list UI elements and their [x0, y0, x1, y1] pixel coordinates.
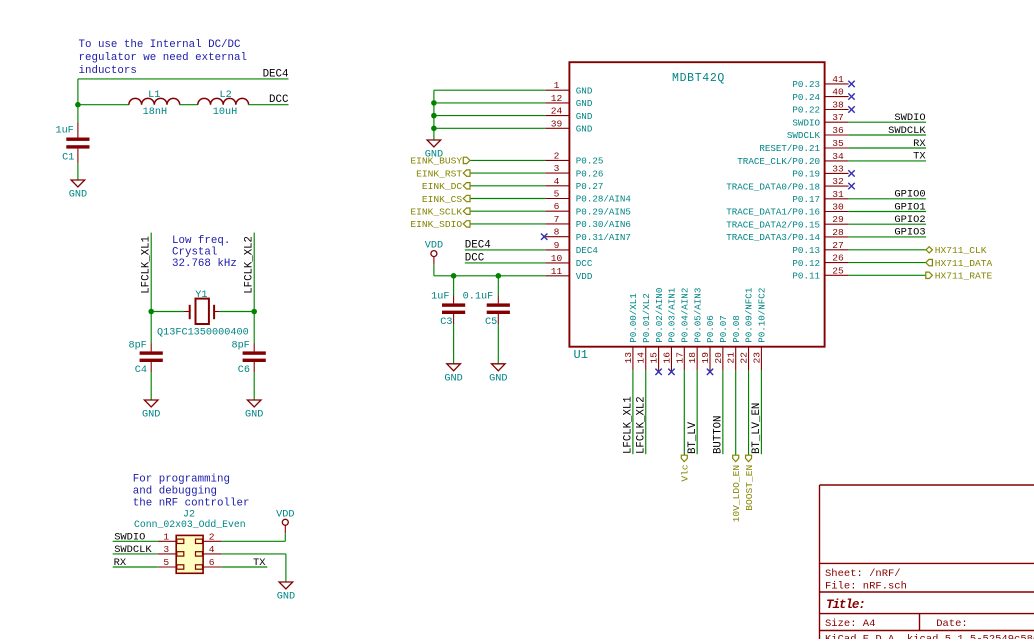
svg-text:1: 1 — [163, 531, 169, 542]
wire EINK_CS to U1 — [470, 198, 545, 200]
svg-text:Size: A4: Size: A4 — [825, 618, 875, 630]
svg-text:DEC4: DEC4 — [263, 68, 289, 80]
pin 11 (VDD) of U1 — [545, 266, 592, 282]
svg-text:GND: GND — [576, 98, 593, 109]
svg-text:GPIO1: GPIO1 — [894, 201, 925, 213]
svg-text:32.768 kHz: 32.768 kHz — [172, 258, 237, 270]
svg-text:29: 29 — [832, 214, 844, 225]
no-connect pin 19 — [707, 369, 713, 375]
pin 3 (P0.26) of U1 — [545, 163, 603, 179]
no-connect pin 40 — [848, 93, 854, 99]
hierarchical label EINK_RST — [416, 168, 470, 179]
no-connect pin 8 — [541, 234, 547, 240]
pin 27 (P0.13) of U1 — [792, 240, 848, 256]
svg-text:Date:: Date: — [936, 618, 968, 630]
svg-text:SWDIO: SWDIO — [114, 531, 145, 543]
comment note: programming text — [133, 473, 250, 509]
pin 2 (P0.25) of U1 — [545, 150, 603, 166]
svg-text:L1: L1 — [148, 90, 160, 101]
svg-text:8pF: 8pF — [128, 340, 146, 351]
svg-text:P0.22: P0.22 — [792, 105, 820, 116]
pin 33 (P0.19) of U1 — [792, 163, 848, 179]
svg-text:13: 13 — [623, 352, 634, 364]
capacitor C5 — [463, 292, 510, 328]
wire between L1 and L2 — [180, 104, 198, 106]
pin 17 (P0.04/AIN2) of U1 — [674, 288, 690, 371]
capacitor C1 — [55, 123, 89, 164]
power VDD J2 — [276, 509, 294, 533]
wire pin2 to VDD corner — [221, 540, 285, 542]
svg-text:P0.12: P0.12 — [792, 258, 820, 269]
svg-text:18: 18 — [687, 352, 698, 364]
pin 4 of J2 — [203, 544, 221, 555]
svg-text:EINK_DC: EINK_DC — [422, 181, 463, 192]
wire GND pin row y=102.9 — [434, 102, 546, 104]
pin 10 (DCC) of U1 — [545, 253, 592, 269]
svg-text:P0.26: P0.26 — [576, 168, 604, 179]
pin 40 (P0.24) of U1 — [792, 87, 848, 103]
pin 29 (TRACE_DATA2/P0.15) of U1 — [726, 214, 848, 230]
wire pin 20 to label BUTTON — [722, 371, 724, 455]
svg-text:18nH: 18nH — [143, 107, 167, 118]
capacitor C4 — [128, 340, 162, 376]
svg-text:For programming: For programming — [133, 473, 230, 485]
wire C1 to ground — [77, 163, 79, 180]
ground GND C4 — [142, 400, 160, 421]
svg-text:GND: GND — [444, 373, 462, 384]
svg-text:6: 6 — [554, 201, 560, 212]
svg-text:SWDCLK: SWDCLK — [888, 125, 926, 137]
wire pin 18 to label BT_LV — [696, 371, 698, 455]
svg-text:P0.17: P0.17 — [792, 194, 820, 205]
wire VDD row to pin 11 — [434, 275, 546, 277]
svg-text:Conn_02x03_Odd_Even: Conn_02x03_Odd_Even — [134, 519, 246, 530]
wire RX to pin5 — [113, 566, 158, 568]
svg-text:GND: GND — [142, 410, 160, 421]
wire pin 31 to label GPIO0 — [849, 198, 926, 200]
no-connect pin 16 — [668, 369, 674, 375]
svg-text:HX711_CLK: HX711_CLK — [935, 245, 987, 256]
pin 28 (TRACE_DATA3/P0.14) of U1 — [726, 227, 848, 243]
svg-text:P0.05/AIN3: P0.05/AIN3 — [692, 288, 703, 343]
svg-text:BT_LV_EN: BT_LV_EN — [751, 403, 763, 454]
svg-text:31: 31 — [832, 189, 844, 200]
svg-text:11: 11 — [551, 266, 563, 277]
svg-text:7: 7 — [554, 214, 560, 225]
svg-text:EINK_BUSY: EINK_BUSY — [410, 156, 462, 167]
svg-text:Vlc: Vlc — [680, 464, 691, 482]
hierarchical label HX711_CLK — [926, 245, 987, 256]
pin 23 (P0.10/NFC2) of U1 — [751, 288, 767, 371]
svg-text:21: 21 — [726, 352, 737, 364]
pin 37 (SWDIO) of U1 — [792, 112, 848, 128]
pin 6 of J2 — [203, 557, 221, 568]
hierarchical label Vlc — [680, 455, 691, 481]
svg-text:VDD: VDD — [276, 509, 294, 520]
wire pin 30 to label GPIO1 — [849, 211, 926, 213]
wire GND pin row y=90.2 — [434, 89, 546, 91]
wire C3 to ground — [453, 324, 455, 364]
svg-text:20: 20 — [713, 352, 724, 364]
svg-text:HX711_DATA: HX711_DATA — [935, 258, 993, 269]
wire C6 to ground — [253, 372, 255, 400]
svg-text:the nRF controller: the nRF controller — [133, 498, 250, 510]
svg-text:P0.11: P0.11 — [792, 271, 820, 282]
no-connect pin 32 — [848, 183, 854, 189]
svg-text:35: 35 — [832, 138, 844, 149]
svg-text:P0.03/AIN1: P0.03/AIN1 — [667, 287, 678, 343]
ground GND C3 — [444, 364, 462, 385]
wire pin 14 to label LFCLK_XL2 — [645, 371, 647, 455]
wire crystal left horizontal — [151, 311, 184, 313]
pin 2 of J2 — [203, 531, 221, 542]
hierarchical label EINK_SCLK — [410, 207, 470, 218]
wire EINK_RST to U1 — [470, 172, 545, 174]
svg-text:3: 3 — [554, 163, 560, 174]
svg-text:2: 2 — [554, 150, 560, 161]
wire C6 top — [253, 312, 255, 344]
svg-text:File: nRF.sch: File: nRF.sch — [825, 581, 907, 593]
wire VDD vertical — [284, 534, 286, 542]
wire C4 to ground — [150, 372, 152, 400]
svg-text:TRACE_DATA3/P0.14: TRACE_DATA3/P0.14 — [726, 232, 820, 243]
pin 5 of J2 — [158, 557, 176, 568]
svg-text:SWDIO: SWDIO — [894, 112, 925, 124]
junction C3 — [451, 273, 457, 279]
svg-text:P0.10/NFC2: P0.10/NFC2 — [757, 288, 768, 343]
hierarchical label EINK_SDIO — [410, 219, 470, 230]
wire pin 13 to label LFCLK_XL1 — [632, 371, 634, 455]
svg-text:P0.01/XL2: P0.01/XL2 — [641, 293, 652, 343]
pin 31 (P0.17) of U1 — [792, 189, 848, 205]
svg-text:Title:: Title: — [826, 598, 865, 612]
junction GND bus 2 — [431, 113, 437, 119]
svg-text:22: 22 — [739, 352, 750, 364]
node junction crystal left — [148, 309, 154, 315]
power VDD U1 — [425, 241, 443, 265]
pin 9 (DEC4) of U1 — [545, 240, 598, 256]
svg-text:LFCLK_XL1: LFCLK_XL1 — [623, 396, 635, 454]
svg-text:1uF: 1uF — [431, 292, 449, 303]
wire DEC4 to U1 pin 9 — [465, 249, 546, 251]
svg-text:P0.09/NFC1: P0.09/NFC1 — [744, 287, 755, 343]
wire C1 top — [77, 105, 79, 123]
pin 1 (GND) of U1 — [545, 80, 592, 96]
svg-text:SWDCLK: SWDCLK — [787, 130, 821, 141]
svg-text:RESET/P0.21: RESET/P0.21 — [759, 143, 820, 154]
svg-text:P0.07: P0.07 — [718, 315, 729, 343]
wire pin 29 to label GPIO2 — [849, 223, 926, 225]
svg-text:GPIO0: GPIO0 — [894, 189, 925, 201]
svg-text:EINK_RST: EINK_RST — [416, 168, 462, 179]
svg-text:28: 28 — [832, 227, 844, 238]
wire pin 35 to label RX — [849, 147, 926, 149]
svg-text:26: 26 — [832, 253, 844, 264]
svg-text:L2: L2 — [219, 90, 231, 101]
svg-text:RX: RX — [114, 557, 127, 569]
svg-text:DCC: DCC — [269, 94, 289, 106]
svg-text:1: 1 — [554, 80, 560, 91]
svg-text:RX: RX — [913, 138, 926, 150]
pin 13 (P0.00/XL1) of U1 — [623, 293, 639, 371]
node junction DEC4/DCC column — [75, 102, 81, 108]
title block frame — [820, 485, 1034, 639]
pin 6 (P0.29/AIN5) of U1 — [545, 201, 631, 217]
svg-text:P0.19: P0.19 — [792, 169, 820, 180]
svg-text:1uF: 1uF — [55, 126, 73, 137]
svg-text:U1: U1 — [574, 348, 588, 362]
svg-text:EINK_SDIO: EINK_SDIO — [410, 219, 462, 230]
pin 30 (TRACE_DATA1/P0.16) of U1 — [726, 202, 848, 218]
comment note: crystal text — [172, 235, 237, 270]
wire pin 22 to hierarchical label BOOST_EN — [748, 371, 750, 456]
wire DCC left segment — [78, 104, 129, 106]
svg-text:3: 3 — [163, 544, 169, 555]
wire C5 top — [497, 276, 499, 296]
svg-text:0.1uF: 0.1uF — [463, 292, 494, 303]
svg-text:10: 10 — [551, 253, 563, 264]
svg-text:MDBT42Q: MDBT42Q — [672, 72, 725, 85]
wire pin 34 to label TX — [849, 160, 926, 162]
wire vertical node to DCC — [77, 79, 79, 105]
inductor L2 — [198, 90, 249, 118]
wire DCC to U1 pin 10 — [465, 262, 546, 264]
svg-text:Q13FC1350000400: Q13FC1350000400 — [157, 328, 249, 339]
wire GND pin row y=128.3 — [434, 127, 546, 129]
hierarchical label 10V_LDO_EN — [731, 455, 742, 522]
svg-text:P0.28/AIN4: P0.28/AIN4 — [576, 194, 632, 205]
pin 12 (GND) of U1 — [545, 93, 592, 109]
pin 34 (TRACE_CLK/P0.20) of U1 — [737, 151, 848, 167]
junction GND bus 1 — [431, 100, 437, 106]
svg-text:DEC4: DEC4 — [576, 245, 599, 256]
hierarchical label HX711_RATE — [926, 271, 993, 282]
svg-text:C1: C1 — [62, 152, 74, 163]
svg-text:23: 23 — [751, 352, 762, 364]
comment note: DC/DC text — [79, 39, 247, 77]
svg-text:HX711_RATE: HX711_RATE — [935, 271, 993, 282]
pin 7 (P0.30/AIN6) of U1 — [545, 214, 631, 230]
svg-text:P0.24: P0.24 — [792, 92, 820, 103]
pin 3 of J2 — [158, 544, 176, 555]
wire pin 36 to label SWDCLK — [849, 134, 926, 136]
junction GND bus 3 — [431, 126, 437, 132]
wire C5 to ground — [497, 324, 499, 364]
pin 39 (GND) of U1 — [545, 118, 592, 134]
svg-text:P0.04/AIN2: P0.04/AIN2 — [680, 288, 691, 343]
wire EINK_SCLK to U1 — [470, 210, 545, 212]
wire GND bus vertical — [433, 90, 435, 140]
svg-text:41: 41 — [832, 74, 844, 85]
svg-text:9: 9 — [554, 240, 560, 251]
svg-text:C6: C6 — [238, 365, 250, 376]
pin 16 (P0.03/AIN1) of U1 — [661, 287, 677, 371]
wire C3 top — [453, 276, 455, 296]
svg-text:8: 8 — [554, 227, 560, 238]
svg-text:30: 30 — [832, 202, 844, 213]
svg-text:40: 40 — [832, 87, 844, 98]
wire VDD vertical U1 — [433, 265, 435, 276]
svg-text:DCC: DCC — [576, 258, 593, 269]
svg-text:BUTTON: BUTTON — [713, 416, 725, 454]
svg-text:10uH: 10uH — [213, 107, 237, 118]
svg-text:DCC: DCC — [465, 252, 485, 264]
svg-text:GPIO3: GPIO3 — [894, 227, 925, 239]
pin 32 (TRACE_DATA0/P0.18) of U1 — [726, 176, 848, 192]
svg-text:P0.29/AIN5: P0.29/AIN5 — [576, 206, 631, 217]
svg-text:P0.02/AIN0: P0.02/AIN0 — [654, 288, 665, 343]
svg-text:BT_LV: BT_LV — [687, 421, 699, 454]
wire pin 37 to label SWDIO — [849, 121, 926, 123]
svg-text:P0.25: P0.25 — [576, 156, 604, 167]
wire crystal left vertical — [150, 233, 152, 312]
svg-text:P0.08: P0.08 — [731, 315, 742, 343]
hierarchical label EINK_BUSY — [410, 156, 470, 167]
pin 25 (P0.11) of U1 — [792, 265, 848, 281]
svg-text:EINK_SCLK: EINK_SCLK — [410, 207, 462, 218]
svg-text:15: 15 — [649, 352, 660, 364]
node junction crystal right — [251, 309, 257, 315]
svg-text:regulator we need external: regulator we need external — [79, 52, 247, 64]
svg-text:39: 39 — [551, 118, 563, 129]
svg-text:33: 33 — [832, 163, 844, 174]
svg-text:17: 17 — [674, 352, 685, 364]
svg-text:38: 38 — [832, 100, 844, 111]
wire GND vertical J2 — [285, 554, 287, 582]
IC U1 MDBT42Q body — [569, 62, 824, 362]
svg-text:8pF: 8pF — [231, 340, 249, 351]
svg-text:6: 6 — [209, 557, 215, 568]
svg-text:19: 19 — [700, 352, 711, 364]
pin 15 (P0.02/AIN0) of U1 — [649, 288, 665, 371]
svg-text:VDD: VDD — [576, 271, 593, 282]
svg-text:GND: GND — [489, 373, 507, 384]
svg-text:C5: C5 — [485, 317, 497, 328]
svg-text:GND: GND — [576, 111, 593, 122]
svg-text:DEC4: DEC4 — [465, 239, 491, 251]
pin 5 (P0.28/AIN4) of U1 — [545, 189, 631, 205]
wire EINK_DC to U1 — [470, 185, 545, 187]
ground GND C1 — [69, 180, 87, 201]
svg-text:14: 14 — [636, 352, 647, 364]
svg-text:GPIO2: GPIO2 — [894, 214, 925, 226]
no-connect pin 15 — [655, 369, 661, 375]
pin 21 (P0.08) of U1 — [726, 315, 742, 370]
svg-text:P0.23: P0.23 — [792, 79, 820, 90]
junction C5 — [496, 273, 502, 279]
svg-text:Crystal: Crystal — [172, 247, 217, 259]
svg-text:SWDCLK: SWDCLK — [114, 544, 152, 556]
ground GND C6 — [245, 400, 263, 421]
svg-text:LFCLK_XL2: LFCLK_XL2 — [636, 396, 648, 454]
svg-text:P0.30/AIN6: P0.30/AIN6 — [576, 219, 631, 230]
svg-text:GND: GND — [69, 190, 87, 201]
ground GND C5 — [489, 364, 507, 385]
hierarchical label EINK_CS — [422, 194, 470, 205]
pin 1 of J2 — [158, 531, 176, 542]
wire DCC right segment — [249, 104, 289, 106]
svg-text:KiCad E.D.A. kicad 5.1.5-5254: KiCad E.D.A. kicad 5.1.5-52549c58e — [825, 634, 1034, 640]
svg-text:25: 25 — [832, 265, 844, 276]
svg-text:GND: GND — [277, 592, 295, 603]
pin 36 (SWDCLK) of U1 — [787, 125, 849, 141]
wire pin 26 to hierarchical label HX711_DATA — [849, 262, 926, 264]
svg-text:16: 16 — [661, 352, 672, 364]
pin 4 (P0.27) of U1 — [545, 176, 603, 192]
connector J2 — [134, 509, 246, 573]
svg-text:5: 5 — [163, 557, 169, 568]
svg-text:5: 5 — [554, 189, 560, 200]
crystal Y1 — [157, 290, 249, 339]
svg-text:Low freq.: Low freq. — [172, 235, 230, 247]
capacitor C3 — [431, 292, 465, 328]
svg-text:34: 34 — [832, 151, 844, 162]
ground GND U1 bus — [425, 140, 443, 161]
pin 26 (P0.12) of U1 — [792, 253, 848, 269]
pin 8 (P0.31/AIN7) of U1 — [545, 227, 631, 243]
pin 20 (P0.07) of U1 — [713, 315, 729, 370]
pin 24 (GND) of U1 — [545, 106, 592, 122]
wire EINK_SDIO to U1 — [470, 223, 545, 225]
wire EINK_BUSY to U1 — [470, 159, 545, 161]
svg-text:EINK_CS: EINK_CS — [422, 194, 463, 205]
wire C4 top — [150, 312, 152, 344]
svg-text:TRACE_DATA1/P0.16: TRACE_DATA1/P0.16 — [726, 207, 820, 218]
svg-text:36: 36 — [832, 125, 844, 136]
wire crystal right vertical — [253, 233, 255, 312]
svg-text:10V_LDO_EN: 10V_LDO_EN — [731, 465, 742, 523]
svg-text:12: 12 — [551, 93, 563, 104]
svg-text:BOOST_EN: BOOST_EN — [744, 465, 755, 511]
hierarchical label HX711_DATA — [926, 258, 993, 269]
svg-text:TRACE_CLK/P0.20: TRACE_CLK/P0.20 — [737, 156, 820, 167]
pin 18 (P0.05/AIN3) of U1 — [687, 288, 703, 371]
wire pin6 TX — [221, 566, 267, 568]
svg-text:TX: TX — [253, 557, 266, 569]
svg-text:GND: GND — [576, 85, 593, 96]
no-connect pin 33 — [848, 170, 854, 176]
svg-text:2: 2 — [209, 531, 215, 542]
wire pin 25 to hierarchical label HX711_RATE — [849, 274, 926, 276]
svg-text:SWDIO: SWDIO — [792, 117, 820, 128]
svg-text:4: 4 — [554, 176, 560, 187]
no-connect pin 41 — [848, 81, 854, 87]
svg-text:27: 27 — [832, 240, 844, 251]
svg-text:TRACE_DATA0/P0.18: TRACE_DATA0/P0.18 — [726, 181, 820, 192]
inductor L1 — [129, 90, 180, 118]
pin 41 (P0.23) of U1 — [792, 74, 848, 90]
svg-text:P0.13: P0.13 — [792, 245, 820, 256]
pin 19 (P0.06) of U1 — [700, 315, 716, 370]
wire SWDIO to pin1 — [113, 540, 158, 542]
wire crystal right horizontal — [220, 311, 254, 313]
svg-text:VDD: VDD — [425, 241, 443, 252]
hierarchical label BOOST_EN — [744, 455, 755, 511]
pin 35 (RESET/P0.21) of U1 — [759, 138, 848, 154]
wire pin 27 to hierarchical label HX711_CLK — [849, 249, 926, 251]
svg-text:C4: C4 — [135, 365, 147, 376]
ground GND J2 — [277, 582, 295, 603]
wire pin 28 to label GPIO3 — [849, 236, 926, 238]
svg-text:P0.27: P0.27 — [576, 181, 604, 192]
svg-text:24: 24 — [551, 106, 563, 117]
pin 38 (P0.22) of U1 — [792, 100, 848, 116]
wire GND pin row y=115.6 — [434, 115, 546, 117]
pin 22 (P0.09/NFC1) of U1 — [739, 287, 755, 371]
wire pin 17 to hierarchical label Vlc — [683, 371, 685, 456]
svg-text:inductors: inductors — [79, 65, 137, 77]
svg-text:C3: C3 — [440, 317, 452, 328]
